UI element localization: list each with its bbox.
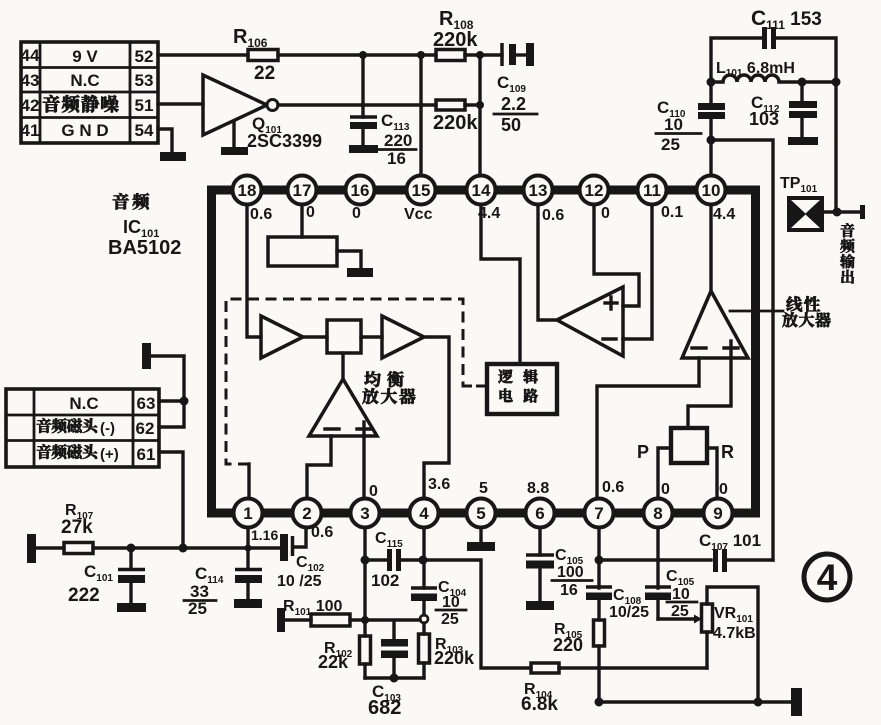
pin 12	[580, 176, 609, 205]
capacitor C115	[365, 530, 423, 590]
resistor R106	[248, 50, 278, 61]
pin 6	[526, 499, 555, 528]
amplifier A2	[382, 316, 424, 358]
node junction pin10/C110	[707, 136, 716, 145]
wire shield to rows 63/62	[151, 356, 184, 427]
svg-text:18: 18	[238, 181, 257, 200]
wire pin8 down	[656, 527, 659, 588]
wire eq plus to pin3	[362, 436, 365, 500]
terminal shield	[142, 343, 151, 369]
svg-text:16: 16	[387, 149, 406, 168]
resistor R102	[318, 620, 371, 678]
svg-text:C115: C115	[375, 530, 403, 550]
svg-text:2.2: 2.2	[501, 94, 526, 114]
wire mute Q101 out	[278, 103, 436, 106]
svg-text:682: 682	[368, 697, 401, 719]
svg-text:C105: C105	[666, 568, 695, 588]
svg-text:4: 4	[419, 504, 429, 523]
resistor R103	[419, 623, 476, 678]
svg-text:51: 51	[135, 96, 154, 115]
ground internal	[347, 268, 373, 277]
wire pin18 to amp A1	[247, 204, 261, 337]
svg-text:220: 220	[384, 131, 412, 150]
wire TP101 net vertical	[834, 82, 837, 212]
resistor R107	[64, 543, 93, 554]
pin 14	[467, 176, 496, 205]
dashed switch section box	[226, 299, 487, 464]
svg-text:220k: 220k	[433, 29, 478, 51]
svg-text:10: 10	[702, 181, 721, 200]
svg-text:41: 41	[21, 121, 40, 140]
label audio (CJK)	[113, 193, 149, 209]
capacitor C105	[526, 547, 592, 610]
wire pin10 up	[709, 140, 712, 178]
wire R side to pin9	[707, 448, 717, 500]
net audio-mute label (CJK)	[43, 95, 119, 112]
capacitor C106	[645, 568, 697, 620]
node junction R105 bottom	[595, 698, 604, 707]
svg-text:63: 63	[137, 394, 156, 413]
svg-text:14: 14	[472, 181, 491, 200]
op-amp detector	[557, 287, 623, 356]
pin 11	[638, 176, 667, 205]
wire pin5 to ground	[479, 527, 482, 542]
svg-text:0: 0	[352, 205, 361, 222]
svg-text:2SC3399: 2SC3399	[247, 131, 322, 151]
net head minus label (CJK)	[37, 418, 98, 433]
svg-text:5: 5	[476, 504, 485, 523]
svg-text:53: 53	[135, 71, 154, 90]
label equalizer amp (CJK)	[364, 371, 403, 387]
svg-text:4.7kB: 4.7kB	[713, 625, 756, 642]
svg-text:0: 0	[719, 481, 728, 498]
ground GND row stub	[158, 129, 186, 161]
capacitor C107	[699, 531, 773, 572]
pin 7	[585, 499, 614, 528]
svg-text:G N D: G N D	[61, 121, 108, 140]
node junction L101 left	[707, 78, 716, 87]
wire pin1 down	[246, 527, 249, 567]
wire row 61 down to input net	[159, 452, 183, 548]
svg-text:VR101: VR101	[714, 605, 753, 625]
node junction C101	[127, 544, 136, 553]
resistor R101	[277, 598, 350, 632]
svg-text:10 /25: 10 /25	[277, 573, 322, 590]
wire linear amp out to pin10	[709, 204, 712, 291]
capacitor C108	[586, 587, 649, 621]
svg-text:25: 25	[661, 135, 680, 154]
svg-text:8: 8	[653, 504, 662, 523]
capacitor C112	[749, 82, 818, 145]
svg-text:103: 103	[749, 109, 779, 129]
svg-text:0: 0	[369, 483, 378, 500]
node junction pin1	[245, 545, 252, 552]
svg-text:C107 101: C107 101	[699, 531, 761, 553]
pin 4	[410, 499, 439, 528]
svg-text:10: 10	[672, 586, 690, 603]
node junction pin14 net	[476, 51, 484, 59]
svg-text:62: 62	[136, 419, 155, 438]
node junction pin7/C107	[595, 556, 604, 565]
svg-text:0.6: 0.6	[250, 206, 272, 223]
svg-text:44: 44	[21, 46, 40, 65]
inductor L101	[711, 60, 836, 82]
svg-text:25: 25	[188, 599, 207, 618]
wire A1 to B1	[303, 335, 327, 338]
node junction C103 bottom	[390, 674, 399, 683]
pin 18	[233, 176, 262, 205]
wire bottom ground rail	[599, 700, 793, 703]
pin 1	[234, 499, 263, 528]
wire input	[36, 546, 64, 549]
capacitor C103	[368, 621, 408, 719]
wire dashed box to pin1	[247, 464, 250, 500]
block internal bias	[268, 237, 337, 266]
node junction R102 top	[361, 616, 369, 624]
wire B1 to A2	[361, 335, 382, 338]
op-amp equalizer	[309, 379, 377, 436]
svg-text:BA5102: BA5102	[108, 237, 181, 259]
svg-text:N.C: N.C	[69, 394, 98, 413]
terminal input left	[27, 534, 36, 563]
wire pin11 to detector minus	[623, 204, 652, 339]
svg-text:4.4: 4.4	[478, 205, 500, 222]
ground pin5	[467, 542, 495, 551]
svg-text:11: 11	[643, 181, 661, 200]
node junction TP net top	[832, 78, 841, 87]
wire linear minus to pin7	[597, 358, 699, 500]
svg-text:C111 153: C111 153	[751, 7, 822, 32]
wire audio output	[824, 210, 861, 213]
label linear amplifier (CJK)	[786, 296, 820, 312]
svg-text:2: 2	[302, 504, 311, 523]
wire Vcc down to pin15	[419, 55, 422, 178]
svg-text:25: 25	[441, 611, 459, 628]
op-amp linear amplifier	[682, 291, 748, 358]
svg-text:1: 1	[243, 504, 252, 523]
capacitor C113	[349, 55, 416, 168]
capacitor C104	[411, 579, 467, 628]
svg-text:61: 61	[137, 445, 156, 464]
potentiometer VR101	[694, 587, 758, 702]
svg-text:54: 54	[135, 121, 154, 140]
capacitor C110	[656, 82, 725, 154]
wire block to ground	[337, 251, 361, 268]
capacitor C101	[68, 548, 146, 612]
wire pin12 to detector plus	[594, 204, 639, 306]
resistor R105	[553, 620, 605, 702]
wire R101 to R102 net	[350, 618, 420, 621]
pin 3	[351, 499, 380, 528]
wire linear plus to P/R block	[688, 358, 731, 428]
svg-text:15: 15	[412, 181, 431, 200]
wire 9V/mute down to pin14	[478, 55, 481, 178]
svg-text:220k: 220k	[433, 112, 478, 134]
IC U101 outline	[212, 190, 756, 513]
capacitor C111	[711, 7, 836, 82]
transistor Q101 inverter	[203, 75, 322, 155]
svg-text:6: 6	[535, 504, 544, 523]
svg-text:(+): (+)	[100, 446, 119, 463]
svg-text:L101 6.8mH: L101 6.8mH	[716, 60, 795, 79]
wire 9V rail cont	[278, 53, 436, 56]
pin 10	[697, 176, 726, 205]
pin 16	[346, 176, 375, 205]
test point TP101	[780, 175, 824, 232]
wire pin14 to logic box	[481, 204, 520, 364]
label linear amplifier pointer	[730, 310, 783, 313]
svg-text:3: 3	[360, 504, 369, 523]
amplifier A1	[261, 316, 303, 358]
svg-text:10: 10	[442, 594, 460, 611]
node junction row63	[180, 397, 189, 406]
resistor R104	[521, 663, 707, 715]
wire R102/C103/R103 bottom net	[365, 676, 424, 679]
svg-text:C113: C113	[381, 111, 410, 133]
svg-text:16: 16	[560, 582, 578, 599]
wire C106 to VR wiper	[658, 617, 694, 620]
svg-text:P: P	[637, 442, 649, 462]
svg-text:C101: C101	[84, 562, 113, 584]
connector J2 left-middle block	[6, 389, 159, 467]
wire input main	[93, 546, 281, 549]
pin 17	[288, 176, 317, 205]
wire R108 to C109	[465, 53, 502, 56]
resistor 220k mute	[436, 100, 465, 110]
svg-text:R106: R106	[233, 26, 268, 50]
svg-text:10: 10	[664, 115, 683, 134]
wire 9V rail	[158, 53, 248, 56]
wire P side to pin8	[658, 448, 671, 500]
node junction C112 top	[798, 78, 807, 87]
svg-text:9: 9	[713, 504, 722, 523]
wire pin7 down	[597, 527, 600, 588]
wire row 63	[159, 399, 184, 402]
node junction C113/9V	[359, 51, 367, 59]
block logic circuit	[487, 364, 557, 414]
svg-text:22: 22	[254, 63, 275, 84]
node junction mute/pin14	[476, 101, 484, 109]
wire B1 to equalizer	[341, 353, 344, 379]
capacitor C114	[184, 564, 262, 618]
svg-text:R: R	[721, 442, 734, 462]
svg-text:0.1: 0.1	[661, 204, 683, 221]
wire A2 out to pin4	[424, 337, 449, 500]
wire C115 to R104	[423, 560, 531, 668]
svg-text:1.16: 1.16	[251, 527, 278, 543]
terminal audio output end	[860, 205, 865, 219]
svg-text:13: 13	[529, 181, 548, 200]
svg-text:0.6: 0.6	[602, 479, 624, 496]
wire pin13 to detector out	[538, 204, 557, 320]
svg-text:N.C: N.C	[70, 71, 99, 90]
capacitor C102	[277, 527, 325, 590]
svg-text:0: 0	[306, 204, 315, 221]
wire pin17 to block	[300, 204, 303, 237]
svg-text:(-): (-)	[100, 420, 115, 437]
block P/R switch	[671, 428, 707, 463]
svg-text:9 V: 9 V	[72, 47, 98, 66]
node junction C115 right	[419, 556, 428, 565]
svg-text:42: 42	[21, 96, 40, 115]
resistor R108	[436, 50, 465, 61]
net head plus label (CJK)	[37, 444, 98, 459]
pin 15	[407, 176, 436, 205]
node junction Vcc/9V	[417, 51, 425, 59]
svg-text:0: 0	[661, 481, 670, 498]
svg-text:100: 100	[557, 564, 584, 581]
svg-text:12: 12	[585, 181, 604, 200]
wire C107 feedback	[599, 558, 711, 561]
svg-text:220: 220	[553, 635, 583, 655]
svg-text:8.8: 8.8	[527, 480, 549, 497]
svg-text:4.4: 4.4	[713, 206, 735, 223]
svg-text:6.8k: 6.8k	[521, 694, 558, 715]
wire pin4 down	[422, 527, 425, 588]
capacitor C109	[494, 43, 537, 135]
svg-text:4: 4	[817, 557, 838, 598]
wire pin3 down	[363, 527, 366, 620]
wire eq minus to pin2	[307, 436, 331, 500]
node junction head+	[179, 544, 188, 553]
label logic circuit (CJK)	[498, 369, 538, 402]
wire mute from 51	[158, 102, 203, 105]
svg-text:52: 52	[135, 47, 154, 66]
svg-text:3.6: 3.6	[428, 476, 450, 493]
node junction C115 left	[361, 556, 370, 565]
pin 5	[467, 499, 496, 528]
pin 13	[524, 176, 553, 205]
svg-text:17: 17	[293, 181, 312, 200]
svg-text:43: 43	[21, 71, 40, 90]
svg-text:102: 102	[371, 571, 399, 590]
svg-text:7: 7	[594, 504, 603, 523]
node junction VR right	[754, 698, 763, 707]
svg-text:0.6: 0.6	[542, 207, 564, 224]
pin 9	[704, 499, 733, 528]
svg-text:0: 0	[601, 205, 610, 222]
svg-text:16: 16	[351, 181, 370, 200]
connector J1 top-left block	[21, 42, 158, 143]
svg-text:222: 222	[68, 585, 100, 606]
wire dashed link to logic box	[463, 385, 487, 388]
svg-text:Vcc: Vcc	[404, 206, 433, 223]
svg-text:C102: C102	[296, 554, 325, 574]
svg-text:C109: C109	[497, 73, 526, 95]
svg-text:27k: 27k	[61, 517, 93, 538]
svg-text:TP101: TP101	[780, 175, 818, 195]
terminal ground right	[791, 688, 802, 716]
wire pin6 down	[538, 527, 541, 555]
pin 2	[293, 499, 322, 528]
wire 220k to pin14 net	[465, 103, 480, 106]
pin 8	[644, 499, 673, 528]
label sheet number 4	[804, 554, 850, 600]
svg-text:5: 5	[479, 480, 488, 497]
svg-text:22k: 22k	[318, 652, 349, 672]
svg-text:220k: 220k	[434, 648, 475, 668]
svg-text:10/25: 10/25	[609, 604, 649, 621]
wire pin10 to C107 right leg	[711, 140, 773, 560]
net audio output label (CJK vertical)	[840, 223, 855, 283]
block B1	[327, 320, 361, 353]
svg-text:50: 50	[501, 115, 521, 135]
node junction TP net	[833, 208, 842, 217]
